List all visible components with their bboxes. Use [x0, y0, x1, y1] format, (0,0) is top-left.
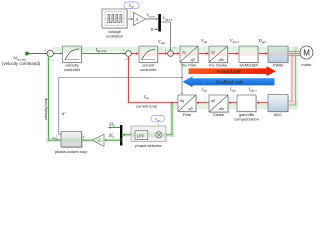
- svg-text:Forward path: Forward path: [217, 69, 242, 74]
- label: theta-hat: [62, 112, 66, 117]
- label: dId: [108, 122, 115, 128]
- svg-text:controller: controller: [64, 67, 81, 72]
- wire: dashed leader from Vexc tag: [130, 9, 132, 18]
- wire: zero constant to mux: [154, 28, 158, 30]
- wire: Inv Park to Inv Clarke: [198, 53, 208, 55]
- label: voltage excitation: [106, 29, 123, 39]
- label: Vdq,exc on wire: [162, 16, 173, 23]
- wire: velocity command input to summer S1: [29, 53, 47, 55]
- summing junction S2: [123, 48, 132, 61]
- velocity loop highlight (feedback row, under blocks): [170, 105, 298, 110]
- block: phase-locked loop: [61, 132, 83, 149]
- label: gain/offs compensation: [234, 112, 259, 122]
- wire: mux output Vdq,exc down to summer S3: [161, 22, 171, 50]
- label: current controller: [140, 62, 157, 72]
- label: Vabc,s with leader: [230, 38, 240, 51]
- block: PWM: [268, 46, 289, 63]
- block: phase detector group: [131, 126, 166, 142]
- svg-text:(velocity command): (velocity command): [2, 61, 41, 66]
- block: velocity controller: [62, 46, 82, 63]
- label: Park: [183, 112, 191, 117]
- label: PWM: [273, 62, 283, 67]
- label: current loop: [136, 104, 158, 109]
- block: Inv Park (dq to alpha-beta): [180, 46, 199, 63]
- tag: Vexc from label (bottom): [151, 115, 165, 122]
- svg-text:A: A: [135, 17, 139, 22]
- label: phase-locked loop: [55, 149, 88, 154]
- label: omega-hat m: [52, 135, 58, 141]
- label: Clarke: [213, 112, 225, 117]
- feedback path arrow: [183, 76, 275, 87]
- block: Inv Clarke (alpha-beta to abc): [209, 46, 229, 63]
- block: Park (alpha-beta to dq): [178, 95, 197, 113]
- block: ADC: [268, 95, 289, 113]
- label: I alpha-beta with leader: [201, 86, 207, 101]
- wire: PWM to motor (3-phase): [288, 51, 300, 55]
- block: voltage excitation: [102, 9, 128, 29]
- wire: velocity controller to summer S2 (Idq,cmd): [82, 53, 126, 55]
- block: Clarke (abc to alpha-beta): [209, 95, 229, 113]
- op-amp: excitation amplifier A: [133, 12, 145, 25]
- wire: multiplier to LPF: [148, 134, 156, 136]
- wire: S3 to Inv Park: [174, 53, 180, 55]
- block: LPF: [135, 131, 148, 140]
- node: Idq branch junction: [171, 102, 173, 104]
- svg-text:Inv Clarke: Inv Clarke: [209, 62, 228, 67]
- label: Idq on feedback wire: [143, 94, 149, 100]
- label: V alpha-beta with leader: [201, 38, 207, 51]
- label: velocity controller: [64, 62, 81, 72]
- svg-text:Park: Park: [183, 112, 191, 117]
- label: phase detector: [135, 143, 162, 148]
- input port (velocity command): [25, 52, 28, 55]
- summing junction S3: [165, 46, 176, 56]
- wire: gain/offset compensation to Clarke: [229, 102, 237, 104]
- svg-text:αβ: αβ: [211, 98, 215, 103]
- wire: S2 to current controller: [132, 53, 139, 55]
- label: velocity command: [2, 56, 41, 66]
- svg-text:controller: controller: [140, 67, 157, 72]
- label: epsilon: [83, 134, 85, 139]
- label: Iabc with leader: [229, 86, 237, 101]
- svg-text:PWM: PWM: [273, 62, 283, 67]
- svg-text:phase-locked loop: phase-locked loop: [55, 149, 88, 154]
- wire: Clarke to Park: [197, 102, 209, 104]
- block: SVM/ZSM: [239, 46, 259, 63]
- svg-text:velocity loop: velocity loop: [43, 97, 48, 120]
- wire: demux output dIq to gain triangle: [105, 139, 120, 141]
- label: motor: [301, 62, 312, 67]
- wire: S1 to velocity controller: [54, 53, 62, 55]
- wire: PLL angle output to Park transforms: [59, 63, 183, 134]
- svg-text:Feedback path: Feedback path: [216, 80, 244, 85]
- wire: LPF to demux: [123, 134, 135, 136]
- svg-text:phase detector: phase detector: [135, 143, 162, 148]
- wire: PLL speed output back to summer S1 (velocity loop): [49, 58, 62, 141]
- current loop highlight (feedback row, under blocks): [126, 101, 298, 105]
- demux: dId / dIq: [120, 125, 122, 146]
- summing junction S1: [44, 49, 55, 63]
- block: gain/offset compensation: [237, 95, 257, 113]
- svg-text:αβ: αβ: [189, 106, 193, 111]
- svg-text:Inv Park: Inv Park: [182, 62, 197, 67]
- svg-text:αβ: αβ: [191, 57, 195, 62]
- wire: Park output Idq back up to summer S2: [129, 57, 179, 102]
- wire: ADC to gain/offset compensation: [257, 102, 268, 104]
- wire: amplifier to mux (Vexc): [146, 18, 158, 20]
- gain triangle (tracking loop gain): [92, 134, 104, 146]
- block: current controller: [139, 46, 159, 63]
- label: Inv Park: [182, 62, 197, 67]
- svg-text:abc: abc: [219, 106, 225, 111]
- svg-text:M: M: [303, 49, 310, 58]
- wire: voltage excitation to amplifier: [127, 18, 133, 20]
- wire: dashed leader from exc tag to multiplier: [158, 122, 160, 131]
- label: Iabc,s with leader: [248, 86, 258, 101]
- wire: motor current tap down to ADC (current loop): [289, 53, 293, 101]
- multiplier (demodulator): [156, 132, 162, 138]
- mux: excitation voltage vector [Vexc;0]: [158, 14, 161, 32]
- label: Dabc with leader: [258, 38, 268, 51]
- wire: current controller to summer S3: [158, 53, 168, 55]
- label: SVM/ZSM: [239, 62, 257, 67]
- svg-text:compensation: compensation: [234, 116, 259, 121]
- wire: resolver signal tap down to ADC (velocity loop): [289, 51, 297, 106]
- forward path arrow: [189, 66, 277, 76]
- label: Vdqs with leader: [158, 39, 166, 51]
- motor M: [300, 46, 313, 59]
- svg-text:abc: abc: [219, 57, 225, 62]
- svg-text:Clarke: Clarke: [213, 112, 225, 117]
- wire: Inv Clarke to SVM/ZSM: [228, 53, 239, 55]
- label: dIq: [108, 133, 115, 139]
- label: zero constant: [151, 27, 154, 32]
- svg-text:+: +: [44, 49, 46, 53]
- velocity loop highlight: [46, 47, 298, 142]
- wire: demux output dId (unconnected): [109, 127, 120, 129]
- label: Vexc on wire: [146, 13, 155, 20]
- label: Inv Clarke: [209, 62, 228, 67]
- svg-text:dq: dq: [180, 98, 184, 103]
- svg-text:excitation: excitation: [106, 34, 123, 39]
- label: Idq,cmd: [95, 47, 107, 54]
- label: velocity loop: [43, 97, 48, 120]
- svg-text:ADC: ADC: [274, 112, 283, 117]
- wire: SVM/ZSM to PWM: [258, 53, 267, 55]
- label: ADC: [274, 112, 283, 117]
- svg-text:current loop: current loop: [136, 104, 158, 109]
- current loop highlight: [127, 52, 298, 105]
- svg-text:motor: motor: [301, 62, 312, 67]
- tag: Vexc goto label (top): [124, 2, 139, 9]
- wire: Idq branch down to phase detector multiplier: [163, 103, 172, 135]
- wire: gain triangle to PLL input: [82, 139, 92, 141]
- svg-text:SVM/ZSM: SVM/ZSM: [239, 62, 257, 67]
